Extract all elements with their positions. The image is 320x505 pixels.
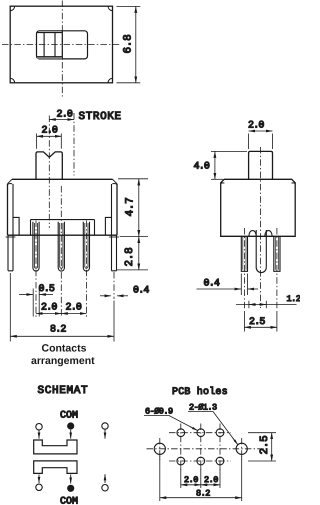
side knob	[249, 151, 273, 179]
knob bottom line	[37, 56, 63, 58]
side right pin row centerline	[276, 228, 278, 310]
side chamfer arc top-left	[221, 179, 225, 183]
svg-text:2.0: 2.0	[184, 475, 198, 485]
pin 1 outline	[33, 222, 39, 271]
schematic top COM terminal (filled)	[67, 422, 74, 429]
leader arrow to big hole	[233, 438, 238, 445]
side right pin	[274, 236, 280, 271]
pin 1 centerline	[35, 221, 37, 318]
dim 1.2 arrows	[249, 304, 256, 306]
svg-text:2.0: 2.0	[42, 126, 58, 137]
side left pin	[241, 236, 247, 271]
dim 6.8 extension line bottom	[117, 82, 141, 84]
arrow from top-left terminal to bar1	[38, 430, 40, 439]
arrow above bottom-right terminal (pointing up)	[104, 474, 106, 483]
front left mounting peg	[8, 235, 13, 271]
front left cover notch	[13, 217, 19, 235]
pin 2 outline	[58, 222, 64, 271]
side left pin row centerline	[243, 228, 245, 310]
dim 2.0 knob width line	[37, 135, 62, 137]
front right mounting peg	[112, 235, 117, 271]
side middle contact right arc	[265, 231, 272, 237]
pcb hole row1 col2	[197, 429, 205, 437]
corner chamfer arc bottom-right	[108, 78, 112, 82]
label 6-diam0.9 underline and leader	[144, 416, 197, 431]
pin 2 inner lines	[60, 223, 63, 268]
pcb dim 2.0 chain left	[181, 484, 201, 486]
dim 0.5 extension lines at pin1 edges	[33, 289, 39, 317]
corner chamfer arc bottom-left	[10, 78, 14, 82]
pcb hole row2 col3	[216, 457, 224, 465]
dim 0.4 side ext lines	[241, 274, 247, 296]
svg-text:0.5: 0.5	[39, 284, 55, 295]
svg-text:PCB holes: PCB holes	[172, 386, 228, 398]
dim 2.8 line	[138, 237, 140, 270]
top view body outline	[10, 6, 112, 83]
dim 0.5 arrow left	[19, 294, 33, 296]
schematic bottom-left terminal circle	[36, 484, 42, 490]
front right peg break tick	[109, 236, 119, 238]
knob with V-notch	[36, 152, 62, 179]
arrow from bar2 to bottom COM terminal	[70, 475, 72, 484]
svg-text:arrangement: arrangement	[31, 355, 95, 367]
svg-text:8.2: 8.2	[196, 488, 210, 498]
knob grip line 1	[43, 33, 45, 57]
dim 4.0 extension bottom	[211, 178, 223, 180]
pin 1 inner lines	[34, 223, 37, 268]
pcb hole row1 col3	[216, 429, 224, 437]
second position centerline (dash-dot)	[73, 113, 75, 176]
dim 0.4 arrow left (right peg)	[100, 295, 111, 297]
corner chamfer arc top-right	[108, 6, 112, 10]
schematic bottom COM terminal (filled)	[67, 485, 74, 492]
dim 2.0 side line	[249, 130, 273, 132]
dim 4.7/2.8 extension middle	[120, 236, 148, 238]
pcb dim 2.5 line	[271, 433, 273, 461]
pcb centerline horizontal row1	[169, 432, 231, 434]
schematic top-right terminal circle	[102, 423, 108, 429]
label 2-diam1.3 underline and leader	[188, 412, 237, 445]
svg-text:1.2: 1.2	[287, 294, 301, 304]
pcb hole row1 col1	[177, 429, 185, 437]
dim 6.8 extension line top	[117, 5, 141, 7]
front body chamfer top-left	[8, 179, 13, 184]
svg-text:2.8: 2.8	[124, 248, 136, 267]
svg-text:6-Ø0.9: 6-Ø0.9	[145, 407, 173, 417]
dim 6.8 line	[135, 6, 137, 82]
dim 8.2 extension left	[9, 273, 11, 342]
svg-text:SCHEMAT: SCHEMAT	[38, 385, 89, 397]
svg-text:2.0: 2.0	[248, 120, 264, 131]
pcb big hole left vertical centerline	[159, 438, 161, 460]
svg-text:6.8: 6.8	[122, 35, 134, 54]
side middle contact	[256, 230, 266, 273]
knob grip line 2	[54, 33, 56, 57]
svg-text:2.0: 2.0	[41, 302, 57, 313]
dim 4.0 extension top	[211, 150, 247, 152]
front body chamfer top-right	[112, 179, 117, 184]
dim 2.0 knob width extension right	[60, 134, 62, 149]
front right flange inner line	[111, 184, 113, 235]
pcb centerline vertical col1	[180, 424, 182, 471]
svg-text:2.0: 2.0	[66, 302, 82, 313]
pcb centerline horizontal middle	[147, 448, 267, 450]
top view vertical centerline	[61, 1, 63, 97]
front right cover notch	[105, 217, 111, 235]
side body outline	[221, 179, 296, 236]
svg-text:2.5: 2.5	[259, 436, 271, 455]
side left pin inner	[243, 236, 246, 269]
dim 2.5 side extensions	[244, 311, 277, 332]
pcb dim 8.2 extension lines	[160, 456, 242, 501]
dim 2.0 chain line left	[36, 313, 61, 315]
front base seam line	[31, 220, 95, 235]
contact bar 2	[34, 461, 77, 474]
knob right edge	[61, 31, 63, 59]
dim 0.4 arrow right (right peg)	[117, 295, 128, 297]
svg-text:2.0: 2.0	[204, 475, 218, 485]
svg-text:Contacts: Contacts	[42, 343, 87, 355]
pin 3 inner lines	[85, 223, 88, 268]
dim 2.8 extension bottom	[117, 269, 148, 271]
pcb dim 8.2 line	[160, 497, 242, 499]
pin 2 centerline	[60, 186, 62, 317]
pcb big hole right vertical centerline	[241, 438, 243, 460]
knob position centerline (dash-dot)	[48, 116, 50, 229]
right peg centerline below	[113, 272, 115, 299]
dim 2.0 chain line right	[61, 313, 86, 315]
dim 4.7 extension top	[118, 178, 148, 180]
svg-text:COM: COM	[60, 411, 78, 422]
pcb hole row2 col2	[197, 457, 205, 465]
svg-text:COM: COM	[60, 497, 78, 505]
slot opening rounded rect	[37, 31, 88, 59]
svg-text:0.4: 0.4	[133, 285, 149, 296]
arrow below top-right terminal	[104, 429, 106, 438]
dim 2.0 stroke line	[49, 119, 74, 121]
pcb dim 2.0 extension lines	[181, 467, 220, 488]
pin 3 outline	[83, 222, 89, 271]
contact bar 1	[34, 440, 77, 454]
leader arrow to small hole	[190, 427, 197, 431]
dim 2.0 knob width extension left	[36, 134, 38, 149]
svg-text:STROKE: STROKE	[79, 111, 122, 123]
svg-text:4.7: 4.7	[125, 198, 137, 217]
pin 3 centerline	[85, 221, 87, 318]
svg-text:0.4: 0.4	[204, 278, 220, 289]
pcb big hole left	[154, 443, 165, 454]
knob bottom shaded band	[37, 57, 62, 59]
pcb hole row2 col1	[177, 457, 185, 465]
dim 8.2 line	[10, 335, 114, 337]
side center line (dash-dot)	[260, 147, 262, 308]
front left flange inner line	[12, 184, 14, 235]
svg-text:2.0: 2.0	[57, 110, 73, 121]
dim 4.0 line	[214, 151, 216, 179]
knob top inner line	[37, 32, 63, 34]
dim 1.2 line	[236, 304, 297, 306]
side right pin inner	[275, 236, 278, 269]
side middle contact left arc	[249, 231, 256, 237]
pcb centerline horizontal row2	[169, 460, 231, 462]
svg-text:2.5: 2.5	[249, 317, 265, 328]
svg-text:8.2: 8.2	[50, 325, 66, 336]
arrow from top COM terminal to bar1	[70, 430, 72, 439]
pcb big hole right	[236, 443, 247, 454]
dim 0.4 side arrow left	[197, 288, 242, 290]
corner chamfer arc top-left	[10, 6, 14, 10]
dim 0.4 side arrow right	[248, 288, 258, 290]
front left peg break tick	[6, 236, 16, 238]
dim 0.5 arrow right	[39, 294, 53, 296]
pcb dim 2.5 extension lines	[248, 433, 276, 461]
pcb dim 2.0 chain right	[201, 484, 220, 486]
svg-text:2-Ø1.3: 2-Ø1.3	[189, 403, 217, 413]
arrow from bar2 to bottom-left terminal	[38, 475, 40, 484]
dim 2.0 side extensions	[249, 134, 273, 150]
front body outline	[8, 179, 118, 235]
pcb centerline vertical col2	[200, 424, 202, 471]
top view horizontal centerline	[2, 44, 121, 46]
schematic top-left terminal circle	[36, 424, 42, 430]
schematic bottom-right terminal circle	[102, 485, 108, 491]
pcb centerline vertical col3	[219, 424, 221, 471]
dim 2.5 side line	[244, 326, 277, 328]
svg-text:4.0: 4.0	[194, 161, 210, 172]
dim 4.7 line	[138, 179, 140, 237]
dim 8.2 extension right	[113, 301, 115, 342]
side chamfer arc top-right	[292, 182, 296, 184]
dim 1.2 ticks	[249, 301, 266, 309]
